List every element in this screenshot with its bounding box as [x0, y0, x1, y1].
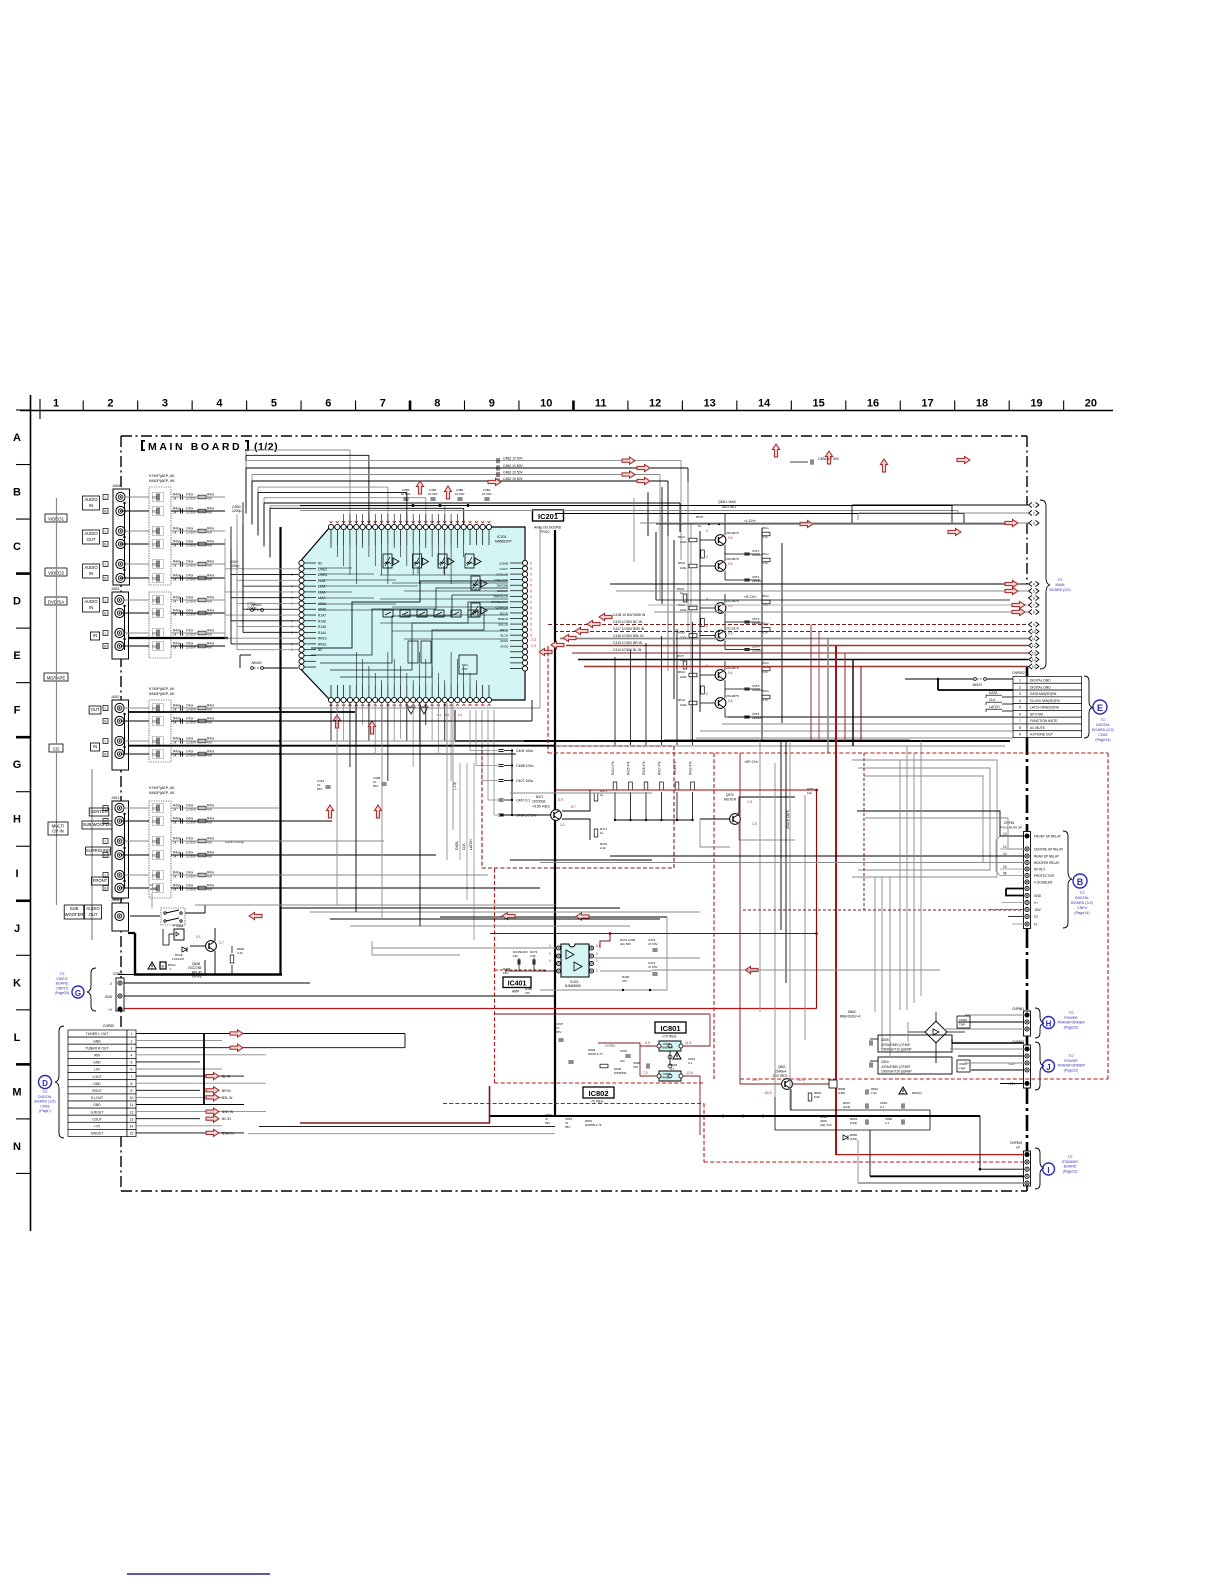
- power rail bundle (maroon): [811, 625, 861, 1156]
- svg-text:2200p: 2200p: [230, 564, 240, 568]
- svg-text:B: B: [1077, 877, 1084, 887]
- svg-text:EC: EC: [153, 753, 158, 757]
- svg-text:VIDEO: VIDEO: [56, 977, 67, 981]
- capacitor/resistor input cluster (J404): [149, 474, 215, 585]
- svg-text:2SC2878: 2SC2878: [726, 557, 739, 561]
- svg-text:<+7V>: <+7V>: [605, 1044, 615, 1048]
- svg-text:TO: TO: [1069, 1011, 1074, 1015]
- svg-text:TO: TO: [1068, 1155, 1073, 1159]
- (-1.9) vertical label: [453, 782, 457, 790]
- svg-text:Q801: Q801: [778, 1065, 786, 1069]
- DATA CLK LATCH labels: [986, 691, 1002, 712]
- svg-text:1: 1: [1033, 504, 1035, 508]
- svg-text:5: 5: [271, 398, 277, 410]
- svg-text:C409 100u: C409 100u: [516, 749, 533, 753]
- TO DIGITAL BOARD CNP4 text: [1071, 891, 1093, 915]
- red arrows before pins: [948, 519, 1025, 615]
- heavy vertical bus x555: [554, 530, 556, 1116]
- svg-text:-50.2: -50.2: [797, 1078, 805, 1082]
- label AUDIO IN (VIDEO2): [83, 564, 100, 578]
- svg-text:L/RE3: L/RE3: [318, 573, 327, 577]
- svg-text:TMP: TMP: [959, 1067, 965, 1071]
- svg-text:RRE3: RRE3: [318, 637, 327, 641]
- svg-text:BR IN: BR IN: [222, 1089, 231, 1093]
- svg-text:220000: 220000: [752, 553, 762, 557]
- svg-text:COUT: COUT: [500, 567, 509, 571]
- svg-text:2SC2785: 2SC2785: [188, 966, 202, 970]
- IC401 support parts C470 R473: [503, 938, 658, 995]
- transistor Q5A2: [700, 552, 739, 580]
- dashed box power amp area: [443, 753, 1108, 1162]
- svg-text:18: 18: [976, 398, 988, 410]
- red tiny values below IC201: [437, 713, 463, 717]
- svg-text:4: 4: [131, 1054, 133, 1058]
- filter capacitor C805: [870, 1035, 952, 1052]
- label AUDIO OUT sw: [85, 905, 102, 919]
- svg-text:R5x2: R5x2: [678, 561, 685, 565]
- svg-text:DIGITAL: DIGITAL: [1096, 723, 1110, 727]
- svg-text:C41B 10 50V BSW IN: C41B 10 50V BSW IN: [613, 613, 646, 617]
- label OUT (TAPE): [89, 706, 101, 714]
- svg-text:(Page22): (Page22): [1064, 1025, 1079, 1029]
- transistor Q5A6: [700, 689, 739, 717]
- bold rail under IC201: [455, 710, 1010, 746]
- L/R channel squares: [103, 495, 108, 891]
- svg-text:K740P(AEP, UK: K740P(AEP, UK: [149, 786, 175, 790]
- svg-text:H: H: [1046, 1020, 1052, 1029]
- svg-text:0: 0: [706, 625, 708, 629]
- svg-text:L: L: [105, 807, 107, 811]
- svg-text:IC401: IC401: [508, 981, 527, 988]
- svg-text:10000uF/71V (E840P: 10000uF/71V (E840P: [881, 1070, 912, 1074]
- label CENTER: [89, 808, 109, 816]
- IC201 top pins: [328, 521, 491, 545]
- svg-text:6.9: 6.9: [558, 798, 563, 802]
- svg-text:100k: 100k: [680, 608, 687, 612]
- svg-text:2: 2: [1019, 685, 1021, 689]
- svg-text:10 50V: 10 50V: [428, 492, 438, 496]
- svg-text:15: 15: [1003, 865, 1007, 869]
- svg-text:IC201: IC201: [497, 535, 507, 539]
- svg-text:47 50V: 47 50V: [648, 965, 658, 969]
- svg-text:(22)-T16: (22)-T16: [820, 1123, 832, 1127]
- svg-text:9: 9: [1019, 733, 1021, 737]
- svg-text:0.6: 0.6: [728, 671, 733, 675]
- svg-text:J: J: [1046, 1063, 1050, 1072]
- TO DIGITAL BOARD CN92 text: [1092, 718, 1114, 742]
- svg-text:C4B4 4.7 50V: C4B4 4.7 50V: [818, 457, 840, 461]
- svg-text:R449: R449: [150, 887, 158, 891]
- svg-text:K840P(AEP, UK: K840P(AEP, UK: [149, 479, 175, 483]
- svg-text:0: 0: [530, 573, 532, 577]
- svg-text:15k: 15k: [503, 971, 508, 975]
- footer link line: [127, 1573, 270, 1575]
- svg-text:AUDIO: AUDIO: [113, 897, 124, 901]
- svg-text:L1A5: L1A5: [318, 585, 326, 589]
- svg-text:IN: IN: [89, 503, 93, 508]
- svg-text:4700uF/63V (CF40P: 4700uF/63V (CF40P: [881, 1065, 910, 1069]
- svg-text:G: G: [75, 989, 81, 998]
- svg-text:AUDIO: AUDIO: [84, 531, 98, 536]
- source select label DVD/SA: [45, 597, 67, 605]
- bridge rectifier D862: [840, 1010, 965, 1052]
- source select label MD/TAPE: [44, 673, 68, 681]
- svg-text:0: 0: [706, 597, 708, 601]
- svg-text:<L-CH>: <L-CH>: [744, 519, 756, 523]
- svg-text:1-5: 1-5: [747, 800, 752, 804]
- svg-text:C807: C807: [620, 1049, 628, 1053]
- svg-text:0: 0: [530, 606, 532, 610]
- svg-text:OUT: OUT: [89, 912, 98, 917]
- svg-text:0: 0: [530, 578, 532, 582]
- svg-text:6.9: 6.9: [645, 1041, 650, 1045]
- svg-text:1k: 1k: [600, 793, 604, 797]
- svg-text:J403: J403: [111, 587, 119, 591]
- svg-text:IC801: IC801: [660, 1024, 680, 1033]
- connector CNP81 relay strip: [1000, 821, 1064, 929]
- connector CNP861 (H): [1012, 1007, 1085, 1038]
- svg-text:0: 0: [530, 584, 532, 588]
- svg-text:EC: EC: [153, 840, 158, 844]
- svg-text:R417 47k: R417 47k: [658, 761, 662, 775]
- svg-text:9: 9: [489, 398, 495, 410]
- svg-text:2SC2878: 2SC2878: [726, 694, 739, 698]
- svg-text:4.7k: 4.7k: [762, 698, 768, 702]
- svg-text:17: 17: [921, 398, 933, 410]
- label SURROUND: [86, 847, 111, 855]
- bright red dashed supply line: [548, 646, 1108, 1079]
- svg-text:(Page22): (Page22): [1063, 1169, 1078, 1173]
- board-to-board pins 1-15: [1029, 502, 1039, 669]
- svg-text:SUB: SUB: [70, 906, 79, 911]
- svg-text:(SW-R OUT): (SW-R OUT): [786, 810, 790, 829]
- svg-text:EC: EC: [153, 807, 158, 811]
- svg-text:TO: TO: [43, 1090, 48, 1094]
- svg-text:3: 3: [131, 1046, 133, 1050]
- svg-text:2.2k: 2.2k: [600, 846, 606, 850]
- svg-text:C407 100u: C407 100u: [516, 779, 533, 783]
- svg-text:R5xx: R5xx: [762, 552, 769, 556]
- svg-text:IN: IN: [89, 571, 93, 576]
- svg-text:EC: EC: [153, 720, 158, 724]
- svg-text:0: 0: [549, 959, 551, 963]
- svg-text:0: 0: [706, 555, 708, 559]
- svg-text:0.6: 0.6: [728, 632, 733, 636]
- svg-text:R5x2: R5x2: [678, 670, 685, 674]
- jack J403: [111, 587, 129, 659]
- svg-text:10 50V: 10 50V: [401, 492, 411, 496]
- svg-text:BOARD: BOARD: [56, 982, 69, 986]
- svg-text:50V: 50V: [317, 787, 322, 791]
- relay long horizontals: [540, 811, 1024, 863]
- svg-text:HP RLY: HP RLY: [1034, 868, 1046, 872]
- svg-text:5.2: 5.2: [458, 713, 463, 717]
- svg-text:BOARD (2/2): BOARD (2/2): [1092, 728, 1114, 732]
- svg-text:DIGITAL: DIGITAL: [38, 1095, 52, 1099]
- svg-text:0: 0: [549, 944, 551, 948]
- svg-text:EC: EC: [153, 707, 158, 711]
- svg-text:EC: EC: [153, 496, 158, 500]
- svg-text:G: G: [13, 759, 22, 771]
- J402 row extensions: [128, 527, 555, 755]
- svg-text:2: 2: [1033, 512, 1035, 516]
- svg-text:B: B: [104, 577, 106, 581]
- svg-text:13: 13: [1032, 652, 1036, 656]
- svg-text:ANALOG SOUND: ANALOG SOUND: [534, 526, 562, 530]
- svg-text:R5x2: R5x2: [678, 535, 685, 539]
- svg-text:5: 5: [1019, 706, 1021, 710]
- svg-text:5: 5: [1033, 590, 1035, 594]
- J401 row extensions: [225, 808, 540, 888]
- svg-text:5: 5: [131, 1061, 133, 1065]
- IC201 internal switch row: [383, 610, 478, 617]
- svg-text:FRONT SP RELAY: FRONT SP RELAY: [1034, 835, 1062, 839]
- small cap labels above IC201 pins: [401, 488, 492, 500]
- IC201 bottom pin drop wires: [331, 703, 451, 781]
- svg-text:L: L: [105, 840, 107, 844]
- svg-text:B: B: [104, 543, 106, 547]
- C416-C41A caps mid labels: [613, 613, 646, 652]
- svg-text:R5xx: R5xx: [762, 661, 769, 665]
- svg-text:C415 10 50V BR IN: C415 10 50V BR IN: [613, 641, 643, 645]
- svg-text:CM05: CM05: [959, 1018, 967, 1022]
- svg-text:CLOCK MW(SD)FM: CLOCK MW(SD)FM: [1030, 699, 1060, 703]
- svg-text:100k: 100k: [680, 703, 687, 707]
- svg-text:D862: D862: [848, 1010, 856, 1014]
- svg-text:Q970: Q970: [726, 793, 734, 797]
- svg-text:470: 470: [633, 1065, 638, 1069]
- svg-text:AVSS: AVSS: [500, 645, 508, 649]
- svg-text:MTZ5.6-TY: MTZ5.6-TY: [588, 1052, 603, 1056]
- svg-text:0: 0: [706, 692, 708, 696]
- svg-text:LATCH: LATCH: [469, 839, 473, 850]
- svg-text:C4C0: C4C0: [520, 950, 528, 954]
- svg-text:H.PHONE OUT: H.PHONE OUT: [1030, 733, 1053, 737]
- svg-text:8: 8: [434, 398, 440, 410]
- IC801 area wires: [494, 1014, 710, 1135]
- svg-text:LPF: LPF: [462, 667, 468, 671]
- svg-text:0: 0: [291, 642, 293, 646]
- svg-text:12: 12: [1003, 845, 1007, 849]
- svg-text:1: 1: [1019, 679, 1021, 683]
- source select label VIDEO1: [45, 514, 67, 522]
- maroon dashed -50V feed: [743, 753, 1024, 910]
- svg-text:1k: 1k: [150, 883, 154, 887]
- svg-text:CD: CD: [53, 747, 59, 752]
- svg-text:AMP: AMP: [512, 990, 520, 994]
- svg-text:3.3k: 3.3k: [530, 954, 536, 958]
- warning + R5A3: [148, 962, 176, 971]
- svg-text:DATA: DATA: [989, 691, 998, 695]
- top bus wires from input section: [246, 450, 688, 668]
- svg-text:R419 47k: R419 47k: [689, 761, 693, 775]
- CNP81 pin numbers and stub wires: [990, 832, 1024, 924]
- svg-text:-7V REG: -7V REG: [590, 1100, 604, 1104]
- svg-text:EC: EC: [153, 645, 158, 649]
- MULTI CH IN label: [48, 769, 92, 940]
- jumper JW100: [905, 678, 1013, 687]
- capacitor C4B2 10 50V group labels top: [497, 457, 650, 485]
- svg-text:9: 9: [131, 1089, 133, 1093]
- svg-text:11.5: 11.5: [685, 1041, 691, 1045]
- IC401 designator box: [503, 977, 531, 994]
- svg-text:L: L: [105, 530, 107, 534]
- svg-text:DATA MW(SD)FM: DATA MW(SD)FM: [1030, 692, 1057, 696]
- svg-text:DIGITAL: DIGITAL: [1075, 896, 1089, 900]
- svg-text:7: 7: [380, 398, 386, 410]
- svg-text:12: 12: [130, 1110, 134, 1114]
- svg-text:R416 47k: R416 47k: [642, 761, 646, 775]
- svg-text:55V: 55V: [565, 1125, 570, 1129]
- svg-text:SWONB: SWONB: [497, 584, 508, 588]
- svg-text:L: L: [105, 496, 107, 500]
- svg-text:CNP81: CNP81: [1004, 821, 1015, 825]
- svg-text:4: 4: [1033, 583, 1035, 587]
- svg-text:K840P(AEP, UK: K840P(AEP, UK: [149, 692, 175, 696]
- svg-text:0: 0: [549, 952, 551, 956]
- svg-text:+7V: +7V: [94, 1125, 101, 1129]
- svg-text:2SC953/L: 2SC953/L: [532, 800, 546, 804]
- svg-text:B: B: [104, 645, 106, 649]
- svg-text:14: 14: [130, 1125, 134, 1129]
- svg-text:3.2: 3.2: [560, 823, 565, 827]
- svg-text:9: 9: [1033, 623, 1035, 627]
- svg-text:10: 10: [540, 398, 552, 410]
- svg-text:EC: EC: [153, 599, 158, 603]
- svg-text:BOARD (1/2): BOARD (1/2): [34, 1100, 55, 1104]
- svg-text:EC: EC: [153, 543, 158, 547]
- svg-text:EC: EC: [153, 612, 158, 616]
- svg-text:TO: TO: [1069, 1054, 1074, 1058]
- label FRONT: [92, 877, 109, 885]
- svg-text:1: 1: [53, 398, 59, 410]
- svg-text:<SP-CH>: <SP-CH>: [744, 760, 759, 764]
- stub wires above IC201 top pins: [344, 514, 464, 524]
- svg-text:BSL IN: BSL IN: [222, 1096, 233, 1100]
- svg-text:BOARD: BOARD: [1064, 1165, 1077, 1169]
- D804 zener + misc: [545, 1022, 681, 1129]
- photocoupler PT5A8: [169, 924, 184, 945]
- svg-text:EC: EC: [153, 874, 158, 878]
- svg-text:3: 3: [1033, 522, 1035, 526]
- svg-text:R5x2: R5x2: [678, 698, 685, 702]
- svg-text:F: F: [14, 705, 21, 717]
- svg-text:0: 0: [291, 573, 293, 577]
- svg-text:EC: EC: [153, 563, 158, 567]
- svg-text:RRE2: RRE2: [318, 642, 327, 646]
- svg-text:AC MUTE: AC MUTE: [1030, 726, 1046, 730]
- svg-text:LATCH MW(SD)FM: LATCH MW(SD)FM: [1030, 706, 1059, 710]
- svg-text:REAR SP RELAY: REAR SP RELAY: [1034, 855, 1060, 859]
- svg-text:0: 0: [530, 562, 532, 566]
- red supply corner wires: [556, 789, 818, 1009]
- svg-text:R414 47k: R414 47k: [611, 761, 615, 775]
- svg-text:10000uF/71V (E840P: 10000uF/71V (E840P: [881, 1048, 912, 1052]
- svg-text:R1A5: R1A5: [318, 625, 326, 629]
- svg-text:C805: C805: [881, 1038, 889, 1042]
- svg-text:OUT: OUT: [91, 707, 100, 712]
- svg-text:L: L: [105, 632, 107, 636]
- svg-text:4.7k: 4.7k: [762, 561, 768, 565]
- regulator IC802 body: [642, 1064, 693, 1081]
- bottom long wires into I connector: [300, 1086, 1024, 1183]
- svg-text:MUTER: MUTER: [724, 798, 737, 802]
- svg-text:0: 0: [291, 585, 293, 589]
- svg-text:POWER: POWER: [1064, 1059, 1078, 1063]
- svg-text:PROC.: PROC.: [540, 530, 551, 534]
- label IN (MD): [90, 632, 99, 640]
- regulator IC801 body: [645, 1041, 691, 1066]
- svg-text:12k: 12k: [807, 791, 812, 795]
- svg-text:JW100: JW100: [972, 683, 982, 687]
- svg-text:TO: TO: [60, 972, 65, 976]
- svg-text:1k: 1k: [600, 831, 604, 835]
- svg-text:R5xx: R5xx: [762, 689, 769, 693]
- bottom misc resistor/diode row: [775, 1087, 930, 1141]
- svg-text:GND: GND: [93, 1103, 101, 1107]
- svg-text:GND: GND: [1034, 894, 1042, 898]
- select bus wire: [56, 498, 58, 905]
- svg-text:DATA: DATA: [455, 841, 459, 850]
- svg-text:6: 6: [131, 1068, 133, 1072]
- svg-text:0: 0: [291, 619, 293, 623]
- svg-text:220000: 220000: [752, 579, 762, 583]
- svg-text:0: 0: [291, 602, 293, 606]
- svg-text:HZS5B-1.7k: HZS5B-1.7k: [585, 1123, 602, 1127]
- svg-text:R5xx: R5xx: [762, 526, 769, 530]
- svg-text:4: 4: [216, 398, 223, 410]
- svg-text:SUB WOOFER: SUB WOOFER: [83, 822, 112, 827]
- (CW-R OUT) vertical label: [781, 741, 790, 983]
- svg-text:8: 8: [1033, 611, 1035, 615]
- svg-text:WOOFER: WOOFER: [65, 912, 84, 917]
- transistor Q5A5: [700, 661, 739, 689]
- svg-text:C4B8 100u: C4B8 100u: [516, 764, 534, 768]
- brace TO MAIN BOARD: [1040, 500, 1071, 669]
- circled G + TO VIDEO BOARD: [55, 968, 96, 1011]
- svg-text:E: E: [1097, 703, 1103, 713]
- svg-text:AVSS: AVSS: [500, 639, 508, 643]
- main board border (dash-dot): [121, 436, 1027, 1191]
- svg-text:L1A6: L1A6: [318, 590, 326, 594]
- svg-text:AUDIO: AUDIO: [84, 497, 98, 502]
- source select label VIDEO2: [45, 568, 67, 576]
- svg-text:47k: 47k: [525, 991, 530, 995]
- svg-text:S.ROUT: S.ROUT: [91, 1110, 104, 1114]
- svg-text:V+: V+: [1034, 901, 1038, 905]
- svg-text:16: 16: [867, 398, 879, 410]
- svg-text:CN505: CN505: [113, 972, 123, 976]
- svg-text:AUDIO: AUDIO: [84, 599, 98, 604]
- svg-text:Q5A1~5A6: Q5A1~5A6: [718, 500, 736, 504]
- svg-text:B: B: [104, 612, 106, 616]
- svg-text:ROUT: ROUT: [92, 1089, 102, 1093]
- svg-text:19: 19: [1030, 398, 1042, 410]
- svg-text:BL IN: BL IN: [222, 1075, 231, 1079]
- svg-text:BC IN: BC IN: [222, 1117, 231, 1121]
- svg-text:6: 6: [325, 398, 331, 410]
- svg-text:J401: J401: [111, 796, 119, 800]
- svg-text:C467 0.1: C467 0.1: [516, 799, 530, 803]
- input row wires: [121, 497, 228, 933]
- circled D + TO DIGITAL BOARD: [34, 1076, 55, 1114]
- svg-text:20: 20: [1085, 398, 1097, 410]
- source select label CD: [49, 744, 63, 752]
- svg-text:I: I: [15, 868, 18, 880]
- svg-text:3: 3: [1019, 692, 1021, 696]
- svg-text:GND: GND: [105, 995, 113, 999]
- svg-text:(Page20): (Page20): [55, 991, 70, 995]
